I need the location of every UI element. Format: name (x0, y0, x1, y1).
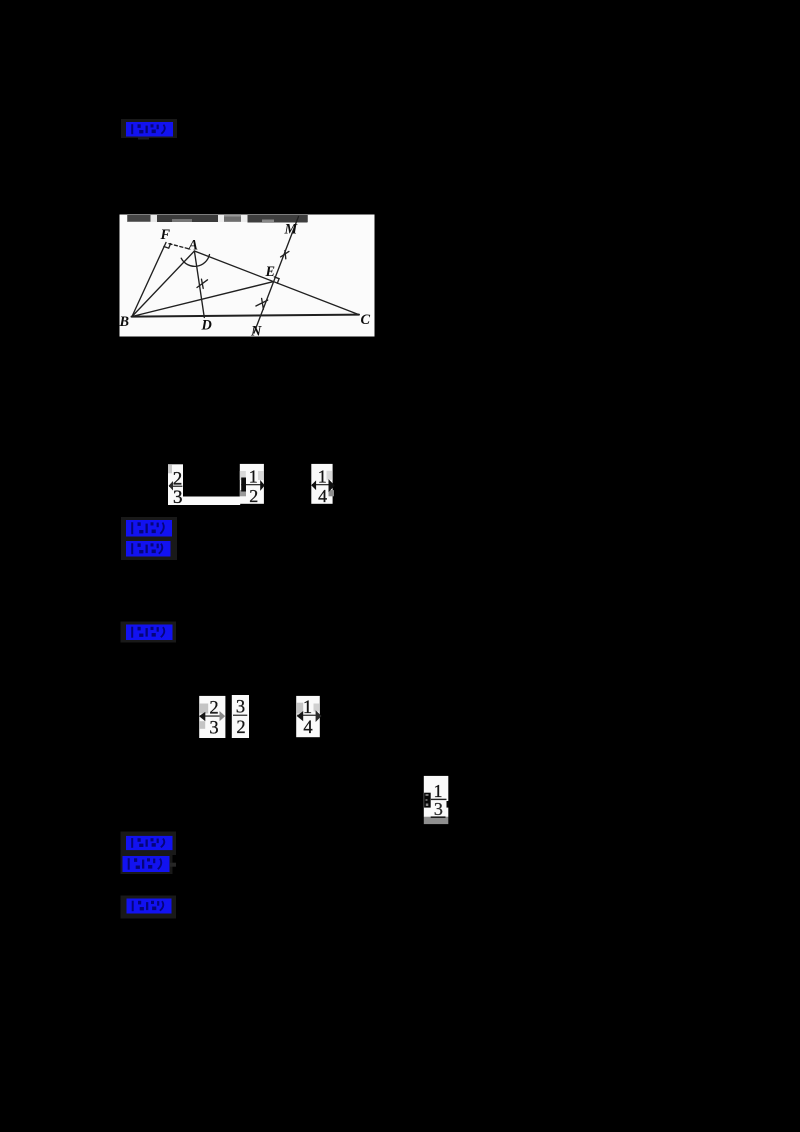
svg-text:1: 1 (249, 467, 258, 487)
tick on AD (197, 279, 208, 288)
line BF (132, 243, 166, 317)
svg-text:2: 2 (236, 718, 245, 738)
blue tag 1 (121, 119, 177, 140)
blue tag 4 (121, 832, 177, 856)
blue tag 2 line 1 (121, 517, 177, 539)
svg-text:3: 3 (209, 719, 218, 739)
tick on EM (281, 251, 289, 259)
blue tag 5 (121, 854, 177, 874)
fraction 1/2 (row 1) (240, 464, 265, 506)
right angle at E (274, 277, 279, 283)
blue tag 6 (121, 896, 177, 919)
svg-text:N: N (250, 324, 262, 340)
line BA (132, 251, 194, 317)
line AC (194, 251, 358, 315)
dashed FA (169, 244, 191, 250)
fraction 1/4 (row 1) (311, 464, 335, 506)
white answer bar (183, 497, 240, 506)
fraction 1/4 (row 2) (296, 696, 321, 738)
fraction 2/3 (row 1) (168, 464, 183, 508)
fraction 2/3 (row 2) (199, 696, 225, 739)
fraction 1/3 with gray base (424, 776, 449, 824)
svg-text:M: M (284, 222, 299, 238)
svg-text:B: B (119, 314, 130, 330)
svg-text:4: 4 (318, 486, 327, 506)
svg-text:3: 3 (173, 487, 183, 508)
svg-text:2: 2 (249, 486, 258, 506)
svg-text:1: 1 (318, 467, 327, 487)
line BE (132, 282, 273, 317)
svg-text:C: C (361, 312, 371, 328)
geometry figure white box (120, 215, 375, 337)
blue tag 2 line 2 (121, 539, 177, 560)
svg-text:A: A (188, 238, 199, 254)
blue tag 3 (121, 622, 177, 643)
svg-text:E: E (265, 264, 276, 280)
tick on EN (256, 298, 268, 309)
angle arc at A (181, 255, 209, 267)
line BC (132, 315, 360, 317)
line MN (254, 217, 299, 334)
figure labels (119, 222, 371, 340)
svg-text:3: 3 (434, 799, 443, 819)
svg-text:F: F (160, 227, 171, 243)
svg-text:D: D (201, 318, 212, 334)
line AD (194, 251, 204, 318)
svg-text:4: 4 (303, 718, 312, 738)
fraction 3/2 (row 2) (232, 695, 249, 738)
cropped text strip at top of figure (127, 215, 308, 222)
right angle at F (164, 244, 171, 249)
